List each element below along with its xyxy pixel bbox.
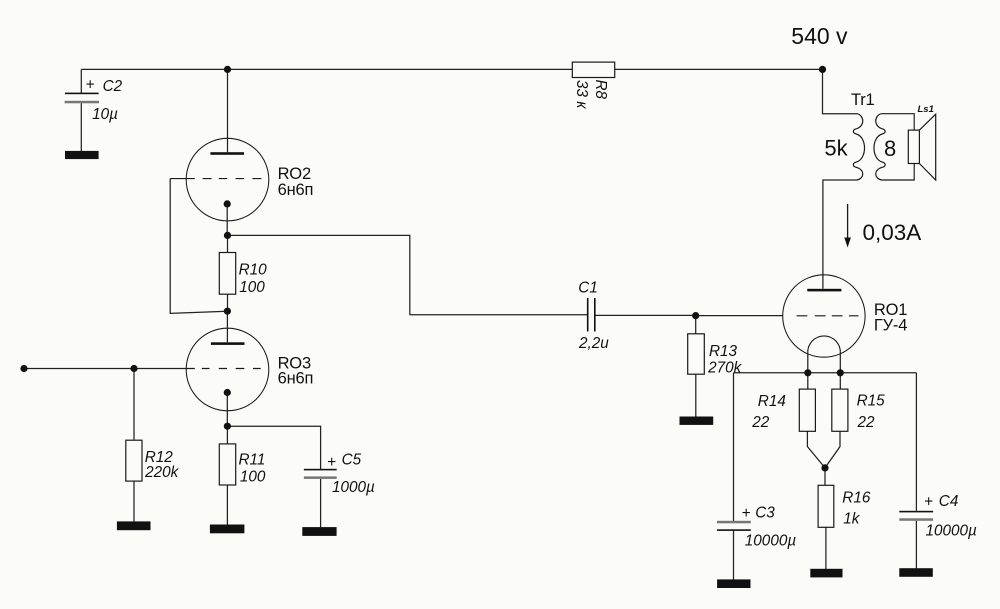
ground for C3 [717, 579, 750, 588]
svg-text:+: + [327, 454, 336, 471]
junction node on rail at RO2 plate [224, 66, 231, 73]
svg-text:5k: 5k [824, 136, 848, 161]
wire RO3 plate [226, 311, 228, 342]
svg-text:C3: C3 [755, 505, 775, 522]
svg-text:8: 8 [884, 136, 896, 161]
svg-text:+: + [86, 77, 95, 94]
node RO3 cathode dot [224, 389, 231, 396]
wire RO3 cathode [226, 393, 228, 427]
node R10 bottom / RO3 plate junction [224, 308, 231, 315]
wire R11 branch [226, 426, 228, 525]
node R14 R15 R16 junction [821, 464, 828, 471]
svg-text:R10: R10 [239, 262, 268, 279]
ground for R13 [680, 417, 714, 425]
node 540v endpoint [819, 66, 826, 73]
transformer Tr1 secondary winding [874, 114, 885, 180]
svg-text:ГУ-4: ГУ-4 [874, 317, 907, 335]
wire C4 branch [915, 373, 917, 569]
wire grid node to RO1 [696, 315, 783, 317]
svg-text:10µ: 10µ [92, 106, 118, 123]
node C1 / R13 / RO1 grid junction [692, 312, 699, 319]
svg-text:33 к: 33 к [573, 80, 590, 109]
svg-text:2,2u: 2,2u [578, 335, 609, 352]
svg-text:22: 22 [857, 414, 876, 431]
triode RO2 [170, 138, 269, 221]
capacitor C5 [304, 452, 375, 497]
svg-text:100: 100 [240, 468, 266, 485]
node RO1 cathode right junction [837, 369, 844, 376]
node RO3 cathode / R11 / C5 junction [224, 423, 231, 430]
resistor R13 [688, 334, 705, 374]
resistor R10 [219, 253, 235, 295]
resistor R11 [219, 444, 235, 485]
svg-text:R15: R15 [857, 393, 886, 410]
wire R14 leads [807, 373, 825, 468]
svg-text:22: 22 [751, 414, 770, 431]
triode RO1 [783, 275, 865, 357]
svg-text:R16: R16 [842, 490, 871, 507]
svg-text:+: + [924, 494, 933, 511]
svg-text:R13: R13 [709, 343, 738, 360]
svg-text:C5: C5 [342, 452, 362, 469]
resistor R15 [832, 389, 848, 431]
wire R15 leads [825, 373, 840, 468]
wire C5 branch [227, 426, 320, 527]
triode RO3 [186, 328, 269, 411]
node RO2 cathode / R10 junction [224, 232, 231, 239]
wire RO1 cathode legs [808, 354, 841, 373]
ground for C4 [899, 568, 933, 577]
wire 540v to transformer primary [823, 69, 858, 113]
wire C2 branch down [80, 69, 82, 151]
wire R12 branch [133, 369, 135, 522]
svg-text:220k: 220k [144, 464, 180, 481]
wire R13 branch [695, 316, 697, 417]
ground for R11 [210, 525, 245, 534]
svg-text:C2: C2 [103, 78, 123, 95]
ground for C5 [302, 527, 336, 536]
svg-text:6н6п: 6н6п [278, 181, 314, 199]
wire transformer primary bottom to RO1 plate [823, 180, 857, 289]
svg-text:10000µ: 10000µ [926, 523, 978, 540]
wire R16 leads [824, 468, 827, 569]
resistor R12 [126, 440, 142, 481]
arrow current 0,03A [847, 204, 849, 240]
svg-text:10000µ: 10000µ [745, 532, 797, 549]
resistor R8 (horizontal) [572, 62, 614, 77]
ground for R16 [810, 569, 842, 578]
ground for C2 [65, 151, 99, 159]
svg-text:1k: 1k [843, 510, 861, 527]
svg-text:270k: 270k [707, 360, 743, 377]
svg-text:C1: C1 [578, 280, 598, 297]
svg-text:0,03A: 0,03A [863, 220, 922, 245]
speaker Ls1 [908, 114, 935, 180]
svg-text:R14: R14 [758, 393, 786, 410]
svg-text:6н6п: 6н6п [278, 370, 314, 388]
svg-text:R8: R8 [592, 80, 609, 100]
svg-text:100: 100 [239, 279, 265, 296]
wire C1 right to grid node [595, 314, 695, 316]
node RO2 cathode dot [224, 200, 231, 207]
wire RO2 grid down [170, 179, 227, 314]
capacitor C1 [578, 280, 609, 352]
wire top supply rail [81, 68, 822, 70]
resistor R14 [799, 389, 815, 431]
wire cathode rail [734, 372, 917, 374]
node RO1 cathode left junction [804, 369, 811, 376]
svg-text:+: + [742, 505, 751, 522]
capacitor C3 [717, 505, 796, 550]
capacitor C2 [65, 77, 123, 124]
node input endpoint [20, 365, 27, 372]
svg-text:Tr1: Tr1 [851, 91, 875, 109]
wire C3 branch [733, 373, 735, 580]
ground for R12 [117, 521, 151, 530]
svg-text:C4: C4 [939, 493, 959, 510]
svg-text:R11: R11 [239, 452, 266, 469]
wire R10 top [227, 235, 229, 252]
wire RO2 plate from rail [227, 69, 229, 152]
svg-text:1000µ: 1000µ [332, 479, 375, 496]
svg-text:Ls1: Ls1 [918, 104, 934, 115]
wire RO2 cathode to node [226, 204, 228, 236]
wire R10 bottom to node [227, 294, 229, 311]
svg-text:540 v: 540 v [791, 23, 848, 49]
wire node to C1 bend [228, 235, 410, 314]
wire secondary to speaker [882, 114, 915, 180]
node grid input / R12 junction [130, 365, 137, 372]
wire C1 left [410, 314, 587, 316]
resistor R16 [818, 485, 834, 527]
transformer Tr1 primary winding [853, 114, 864, 180]
wire RO3 grid input [24, 368, 186, 370]
capacitor C4 [899, 493, 977, 539]
